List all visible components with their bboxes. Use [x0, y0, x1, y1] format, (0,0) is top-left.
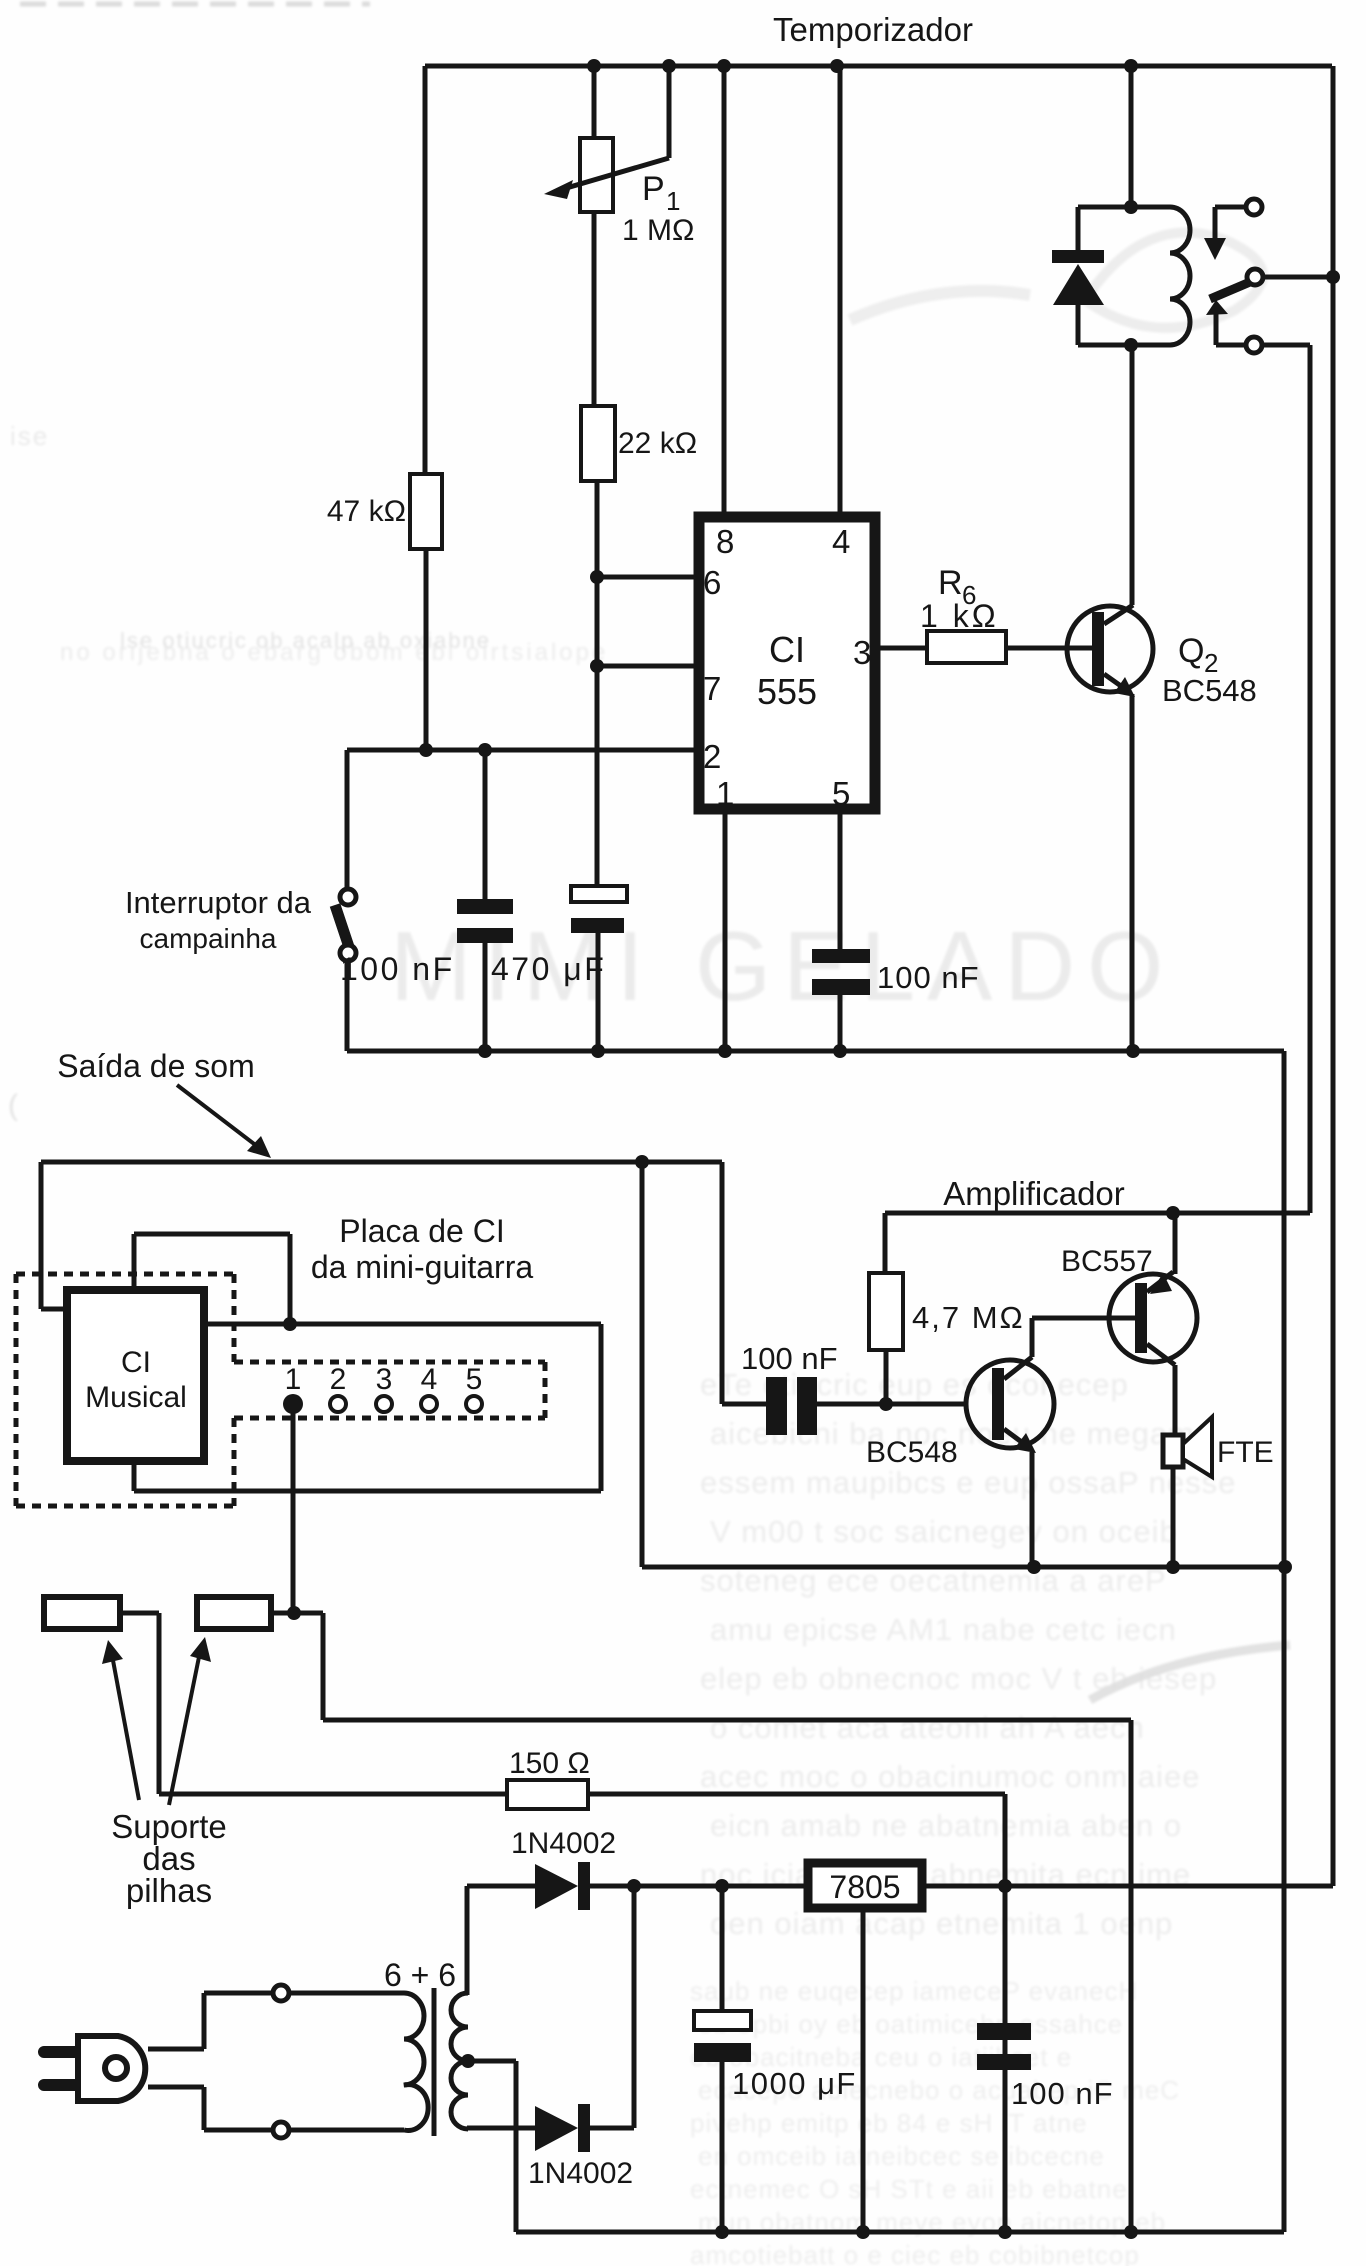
switch S1 lever	[335, 905, 349, 947]
junction 7805 out / 100nF branch	[998, 1879, 1012, 1893]
capacitor C2 470uF plates	[571, 886, 627, 933]
junction top rail / P1 top	[587, 59, 601, 73]
svg-text:pivehp emitp eb 84 e sH iT atn: pivehp emitp eb 84 e sH iT atne	[690, 2108, 1088, 2138]
transistor Q3 circle	[966, 1360, 1054, 1448]
wire to primary top	[289, 1991, 404, 1996]
junction RC node / pin 6	[590, 570, 604, 584]
wire ground bus right	[1282, 1051, 1287, 2232]
capacitor C4 100nF plates	[766, 1377, 817, 1435]
svg-text:P: P	[642, 170, 665, 208]
relay contact common circle	[1247, 269, 1263, 285]
label CI Musical	[85, 1346, 187, 1414]
svg-text:4: 4	[832, 523, 850, 560]
wire 555 pin 7	[597, 664, 694, 669]
svg-text:campainha: campainha	[140, 923, 277, 954]
regulator U2 7805 body	[808, 1863, 922, 1908]
transistor Q3 collector	[1004, 1357, 1032, 1379]
svg-text:5: 5	[466, 1363, 483, 1396]
pin number 7	[703, 670, 721, 707]
capacitor C6 1000uF plates	[694, 2011, 751, 2062]
wire +V right bus	[1331, 66, 1336, 1886]
wire pot P1 top lead	[592, 66, 597, 140]
label 1000 uF	[732, 2066, 857, 2101]
svg-text:2: 2	[330, 1363, 347, 1396]
diode D1 cathode bar	[578, 1862, 590, 1910]
junction amp rail / BC557 emitter	[1166, 1206, 1180, 1220]
junction gnd rail / C3	[833, 1044, 847, 1058]
label Q2	[1178, 632, 1218, 678]
pin number 3	[853, 634, 871, 671]
wire relay NO contact lead	[1216, 312, 1246, 345]
dashed board outline	[16, 1274, 545, 1506]
wire left branch from top rail to R1	[423, 66, 428, 474]
svg-text:1 kΩ: 1 kΩ	[920, 598, 999, 634]
svg-text:7805: 7805	[829, 1869, 900, 1905]
svg-text:1000 μF: 1000 μF	[732, 2066, 857, 2101]
wire P1 bottom to R2	[592, 212, 597, 406]
label CI 555	[757, 629, 817, 712]
wire pad2 to 0V line	[323, 1613, 1131, 1720]
relay contact top circle	[1246, 199, 1262, 215]
transistor Q4 emitter with arrow	[1147, 1272, 1173, 1294]
wire relay top contact lead	[1215, 207, 1246, 240]
wire 555 pin 2 rail	[347, 748, 694, 753]
junction 0V rail / 7805 gnd	[856, 2225, 870, 2239]
transformer T1 primary coil	[404, 1993, 428, 2131]
transformer T1 core	[432, 1988, 437, 2136]
label C1 100 nF	[340, 951, 455, 987]
suporte arrow 1	[102, 1640, 139, 1800]
junction board rail / top loop	[283, 1317, 297, 1331]
label Amplificador	[943, 1175, 1125, 1212]
pin number 1	[716, 775, 734, 812]
switch S1 top contact	[340, 889, 356, 905]
relay K1 coil	[1131, 207, 1190, 345]
wire 555 pin 5 lead	[838, 814, 843, 949]
wire 7805 output rail	[925, 1884, 1333, 1889]
label R6	[938, 564, 976, 610]
svg-text:BC548: BC548	[866, 1436, 958, 1469]
label 1N4002 (D1)	[511, 1827, 616, 1860]
label 4,7 MOhm	[912, 1300, 1025, 1335]
junction rectifier output	[627, 1879, 641, 1893]
battery pad 2	[197, 1597, 271, 1629]
wire C4 left lead	[722, 1402, 766, 1407]
pin number 4	[832, 523, 850, 560]
relay armature	[1210, 282, 1250, 299]
label 1 kOhm	[920, 598, 999, 634]
pad number 2	[330, 1363, 347, 1396]
label BC548 (Q2)	[1162, 673, 1257, 708]
svg-text:Musical: Musical	[85, 1381, 187, 1414]
junction relay bottom	[1124, 338, 1138, 352]
svg-text:150 Ω: 150 Ω	[509, 1747, 590, 1780]
wire center tap	[468, 2061, 516, 2232]
label Saida de som	[57, 1048, 254, 1084]
label Suporte das pilhas	[111, 1808, 227, 1909]
resistor R2 22k body	[581, 406, 615, 481]
svg-text:CI: CI	[769, 629, 805, 670]
pin number 8	[716, 523, 734, 560]
svg-text:100 nF: 100 nF	[1011, 2076, 1114, 2111]
wire board rail loop	[134, 1324, 601, 1491]
svg-text:amu epicse AM1 nabe cetc iecn: amu epicse AM1 nabe cetc iecn	[710, 1612, 1177, 1647]
label 47 kOhm	[327, 495, 406, 528]
wire switch branch upper	[345, 750, 350, 889]
label 150 Ohm	[509, 1747, 590, 1780]
wire pad1 drop	[291, 1404, 296, 1613]
transistor Q4 circle	[1109, 1274, 1197, 1362]
relay contact bottom circle	[1246, 337, 1262, 353]
svg-text:ectnemec O sH STt e aii eb eba: ectnemec O sH STt e aii eb ebatne	[690, 2174, 1128, 2204]
transistor Q3 base bar	[992, 1368, 1004, 1440]
pad 2	[330, 1396, 346, 1412]
wire secondary top riser	[465, 1886, 470, 1995]
wire amp ground rail	[642, 1565, 1285, 1570]
wire CI musical top loop	[134, 1234, 290, 1324]
capacitor C3 bottom lead	[838, 995, 843, 1051]
wire D1 cathode lead	[590, 1884, 634, 1889]
diode D3 triangle	[1053, 264, 1104, 305]
svg-text:1 MΩ: 1 MΩ	[622, 214, 694, 247]
pad number 4	[421, 1363, 438, 1396]
resistor R6 body	[927, 631, 1006, 663]
svg-text:FTE: FTE	[1217, 1436, 1274, 1469]
label C5 100 nF	[1011, 2076, 1114, 2111]
wire R2 bottom down to C2 (RC node)	[595, 481, 600, 886]
wire rectifier node to 7805	[634, 1884, 804, 1889]
junction C6 top	[715, 1879, 729, 1893]
svg-text:acec moc o obacinumoc onm aiee: acec moc o obacinumoc onm aiee	[700, 1759, 1200, 1794]
svg-text:2: 2	[703, 738, 721, 775]
wire plug lower	[148, 2087, 274, 2130]
svg-text:CI: CI	[121, 1346, 151, 1379]
svg-text:R: R	[938, 564, 963, 602]
label Placa de CI da mini-guitarra	[311, 1213, 534, 1285]
svg-text:100 nF: 100 nF	[741, 1341, 838, 1376]
diode D1 triangle	[535, 1864, 578, 1909]
relay armature arrow	[1206, 300, 1228, 315]
wire amp ground drop	[640, 1162, 645, 1567]
label Interruptor da campainha	[125, 885, 312, 954]
potentiometer P1 body	[580, 138, 613, 212]
resistor R1 47k body	[410, 474, 442, 549]
capacitor C1 100nF top lead	[483, 750, 488, 899]
svg-text:en omceib iatneibcec se ibcecn: en omceib iatneibcec se ibcecne	[698, 2141, 1105, 2171]
label BC557 (Q4)	[1061, 1245, 1153, 1278]
IC U1 555 body	[699, 517, 875, 809]
capacitor C3 100nF plates	[812, 949, 870, 995]
wire common contact to +V bus	[1263, 275, 1333, 280]
label BC548 (Q3)	[866, 1436, 958, 1469]
junction saida rail / amp ground drop	[635, 1155, 649, 1169]
junction amp gnd / ground bus	[1278, 1560, 1292, 1574]
battery pad 1	[44, 1597, 120, 1629]
wire plug upper	[148, 1993, 274, 2049]
label C4 100 nF	[741, 1341, 838, 1376]
wire diode D3 bottom lead	[1076, 303, 1081, 345]
node +V top rail label Temporizador	[773, 11, 973, 48]
IC CI Musical body	[67, 1290, 204, 1461]
junction secondary center tap	[461, 2054, 475, 2068]
wire speaker to ground	[1171, 1467, 1176, 1567]
capacitor C1 plates	[457, 899, 513, 943]
svg-text:3: 3	[376, 1363, 393, 1396]
svg-text:47 kΩ: 47 kΩ	[327, 495, 406, 528]
junction gnd rail / Q2 emitter	[1126, 1044, 1140, 1058]
svg-text:100 nF: 100 nF	[340, 951, 455, 987]
svg-text:V m00 t soc saicnegev on oceib: V m00 t soc saicnegev on oceib	[710, 1514, 1178, 1549]
svg-text:Amplificador: Amplificador	[943, 1175, 1125, 1212]
wire saida left drop	[41, 1162, 64, 1309]
svg-text:555: 555	[757, 671, 817, 712]
svg-text:8: 8	[716, 523, 734, 560]
svg-text:Interruptor da: Interruptor da	[125, 885, 312, 920]
label P1	[642, 170, 680, 216]
wire 7805 ground pin	[861, 1908, 866, 2232]
wire 555 pin 6	[597, 575, 694, 580]
wire relay bottom horizontal	[1078, 343, 1131, 348]
wire 555 pin 1 riser	[723, 814, 728, 1051]
svg-text:BC557: BC557	[1061, 1245, 1153, 1278]
wire +V top rail	[425, 64, 1332, 69]
junction top rail / P1 wiper	[662, 59, 676, 73]
wire pad1 to 150R rail	[120, 1613, 507, 1794]
svg-text:eb opbi oy eb oatimicebn essah: eb opbi oy eb oatimicebn essahce	[698, 2009, 1123, 2039]
suporte arrow 2	[169, 1637, 211, 1805]
junction gnd rail / C1	[478, 1044, 492, 1058]
svg-text:470 μF: 470 μF	[491, 951, 606, 987]
junction relay top	[1124, 200, 1138, 214]
transistor Q2 circle	[1067, 606, 1153, 692]
resistor R5 4.7M body	[869, 1273, 903, 1350]
label 7805	[829, 1869, 900, 1905]
wire 555 pin 3 to R6	[875, 646, 927, 651]
svg-text:pilhas: pilhas	[126, 1872, 212, 1909]
label 22 kOhm	[618, 427, 697, 460]
plug hole	[105, 2057, 127, 2079]
wire timer ground rail	[347, 1049, 1284, 1054]
pin number 2	[703, 738, 721, 775]
transistor Q3 emitter with arrow	[1004, 1429, 1036, 1453]
wire 555 pin 4 riser	[838, 66, 843, 512]
wire 555 pin 8 riser	[722, 66, 727, 512]
diode D2 cathode bar	[578, 2104, 590, 2152]
svg-text:Saída de som: Saída de som	[57, 1048, 254, 1084]
capacitor C5 100nF plates	[977, 2023, 1031, 2070]
svg-text:4,7 MΩ: 4,7 MΩ	[912, 1300, 1025, 1335]
wire Q2 collector riser	[1130, 345, 1135, 605]
speaker FTE body	[1163, 1435, 1183, 1467]
junction top rail / 555 pin 8	[717, 59, 731, 73]
wire saida to C4 drop	[720, 1162, 725, 1404]
svg-text:eicn amab ne abatnemia aben o: eicn amab ne abatnemia aben o	[710, 1808, 1182, 1843]
svg-text:Temporizador: Temporizador	[773, 11, 973, 48]
wire Q4 collector to speaker	[1173, 1365, 1178, 1435]
P1 wiper arrow	[544, 158, 669, 199]
wire diode D3 top lead	[1076, 207, 1081, 250]
speaker FTE horn	[1183, 1417, 1212, 1477]
pad number 3	[376, 1363, 393, 1396]
pad 3	[376, 1396, 392, 1412]
wire bottom contact to amp feed	[1262, 345, 1310, 1213]
junction top rail / relay riser	[1124, 59, 1138, 73]
svg-text:saub ne euqecep iameceP evanec: saub ne euqecep iameceP evanecH	[690, 1976, 1138, 2006]
label C2 470 uF	[491, 951, 606, 987]
svg-text:da mini-guitarra: da mini-guitarra	[311, 1249, 534, 1285]
wire to primary bottom	[289, 2128, 404, 2133]
transistor Q2 base bar	[1092, 612, 1104, 686]
relay top contact arrow	[1204, 238, 1226, 260]
pin number 5	[832, 775, 850, 812]
wire R1 bottom to pin2 rail	[424, 549, 429, 750]
wire switch branch lower	[345, 961, 350, 1051]
junction amp gnd / speaker	[1166, 1560, 1180, 1574]
transistor Q2 collector	[1104, 605, 1133, 624]
wire Q3 emitter drop	[1030, 1452, 1035, 1567]
svg-text:6 + 6: 6 + 6	[384, 1957, 456, 1993]
wire +5 branch drop	[1003, 1794, 1008, 2232]
wire relay riser from top rail	[1129, 66, 1134, 207]
svg-text:1N4002: 1N4002	[528, 2157, 633, 2190]
transistor Q2 emitter with arrow	[1104, 674, 1135, 697]
svg-text:lse otiucric ob acalp ab oxiab: lse otiucric ob acalp ab oxiabne	[120, 628, 491, 653]
label 6 + 6	[384, 1957, 456, 1993]
saida arrow	[177, 1085, 271, 1158]
wire Q2 emitter drop	[1130, 694, 1135, 1051]
wire relay top horizontal	[1078, 205, 1168, 210]
pad number 5	[466, 1363, 483, 1396]
transistor Q4 collector	[1147, 1344, 1175, 1365]
transformer T1 secondary coil	[451, 1993, 468, 2129]
capacitor C1 bottom lead	[483, 943, 488, 1051]
svg-text:1N4002: 1N4002	[511, 1827, 616, 1860]
svg-text:o comet aca ateoni ah A aecn: o comet aca ateoni ah A aecn	[710, 1710, 1145, 1745]
junction RC node / pin 7	[590, 659, 604, 673]
junction gnd rail / pin 1	[718, 1044, 732, 1058]
svg-text:5: 5	[832, 775, 850, 812]
junction base node	[879, 1397, 893, 1411]
wire secondary bottom	[467, 2126, 535, 2131]
pad 5	[466, 1396, 482, 1412]
wire R6 to Q2 base	[1006, 646, 1092, 651]
svg-text:7: 7	[703, 670, 721, 707]
junction gnd rail / C2	[591, 1044, 605, 1058]
wire P1 wiper riser	[667, 66, 672, 158]
switch S1 bottom contact	[340, 945, 356, 961]
label 1 MOhm	[622, 214, 694, 247]
svg-text:1: 1	[716, 775, 734, 812]
svg-text:oen oiam acap etnemita 1 oenp: oen oiam acap etnemita 1 oenp	[710, 1906, 1173, 1941]
primary terminal bottom	[273, 2122, 289, 2138]
svg-text:100 nF: 100 nF	[877, 960, 980, 995]
wire 0V bottom rail	[516, 2230, 1284, 2235]
pad 4	[421, 1396, 437, 1412]
wire R5 top lead	[883, 1213, 888, 1273]
wire Q4 emitter riser	[1173, 1213, 1178, 1274]
svg-text:1: 1	[666, 186, 680, 216]
svg-text:22 kΩ: 22 kΩ	[618, 427, 697, 460]
svg-text:essem maupibcs e eup ossaP nes: essem maupibcs e eup ossaP nesse	[700, 1465, 1236, 1500]
wire 150R to +5 node	[588, 1792, 1005, 1797]
pad number 1	[285, 1363, 302, 1396]
resistor R7 150R body	[507, 1780, 588, 1809]
svg-text:3: 3	[853, 634, 871, 671]
wire D2 cathode to rectifier node	[590, 1886, 634, 2128]
wire C6 leads	[720, 1886, 725, 2232]
junction +V bus / relay common	[1326, 270, 1340, 284]
junction 0V rail / C5	[998, 2225, 1012, 2239]
wire pad2 junction	[271, 1611, 323, 1616]
junction 0V rail / C6	[715, 2225, 729, 2239]
junction pin2 rail / R1	[419, 743, 433, 757]
label FTE	[1217, 1436, 1274, 1469]
junction amp gnd / Q3 emitter	[1027, 1560, 1041, 1574]
plug body	[78, 2036, 145, 2101]
diode D2 triangle	[535, 2106, 578, 2151]
wire 0V drop right	[1129, 1720, 1134, 2232]
plug prongs	[44, 2052, 78, 2085]
wire coupling node	[817, 1402, 968, 1407]
junction pad1 wire / pad2 wire	[287, 1606, 301, 1620]
pad 1 filled	[283, 1394, 303, 1414]
wire Q3 collector to Q4 base	[1032, 1318, 1135, 1357]
svg-text:Placa de CI: Placa de CI	[339, 1213, 504, 1249]
diode D3 cathode bar	[1052, 250, 1104, 263]
wire D1 anode lead	[467, 1884, 535, 1889]
svg-text:BC548: BC548	[1162, 673, 1257, 708]
transistor Q4 base bar	[1135, 1283, 1147, 1353]
junction top rail / 555 pin 4	[830, 59, 844, 73]
primary terminal top	[273, 1985, 289, 2001]
wire amplifier +V rail	[885, 1211, 1310, 1216]
label 1N4002 (D2)	[528, 2157, 633, 2190]
pin number 6	[703, 564, 721, 601]
svg-text:1: 1	[285, 1363, 302, 1396]
wire R5 bottom lead	[884, 1350, 889, 1404]
svg-text:6: 6	[703, 564, 721, 601]
svg-text:Q: Q	[1178, 632, 1204, 670]
svg-text:(: (	[8, 1089, 20, 1122]
svg-text:ise: ise	[10, 421, 49, 451]
capacitor C2 bottom lead	[596, 933, 601, 1051]
junction pin2 rail / C1	[478, 743, 492, 757]
junction 0V rail / battery minus	[1124, 2225, 1138, 2239]
svg-text:4: 4	[421, 1363, 438, 1396]
wire saida de som rail	[41, 1160, 722, 1165]
label C3 100 nF	[877, 960, 980, 995]
svg-text:amcotiebatt o e ciec eb cobibn: amcotiebatt o e ciec eb cobibnetcop	[690, 2240, 1140, 2266]
